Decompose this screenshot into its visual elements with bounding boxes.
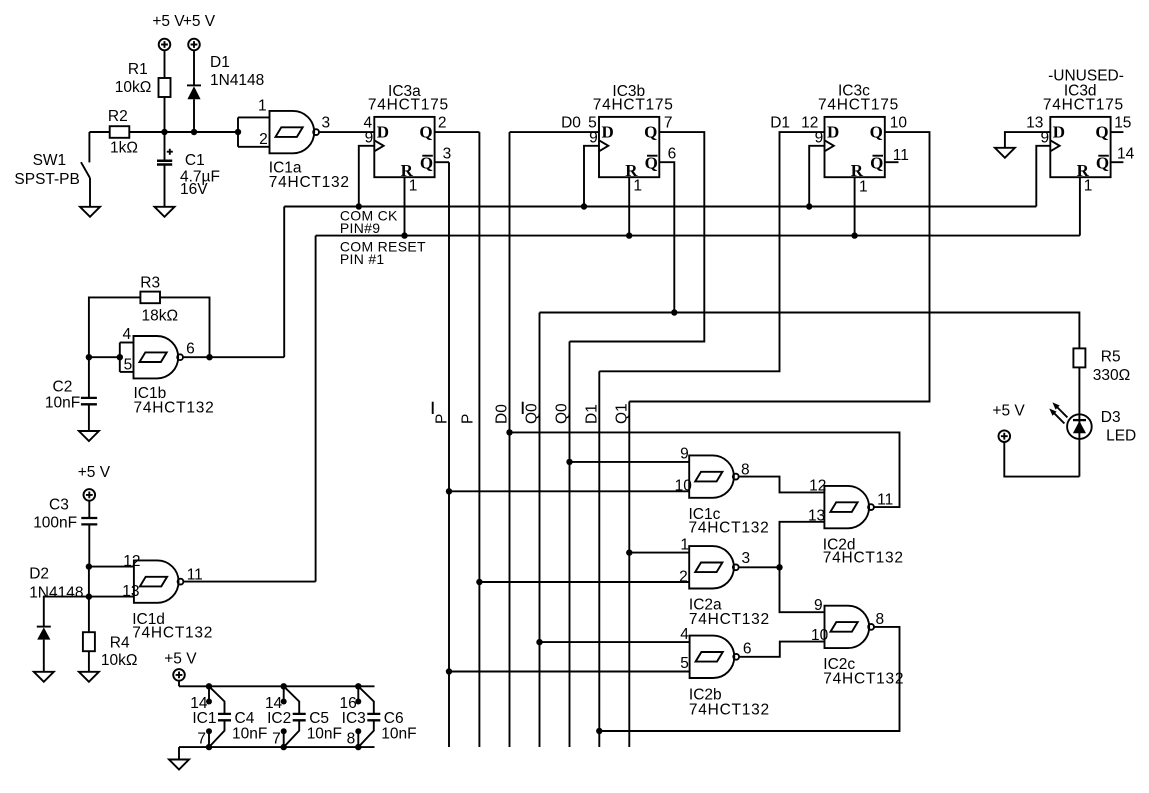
resistor R2 bbox=[110, 126, 130, 138]
junction P bus to IC2a pin2 bbox=[476, 579, 482, 585]
wire C2 to ground bbox=[88, 404, 90, 431]
wire IC3d D to ground bbox=[1005, 132, 1050, 148]
net label Q0 bbox=[554, 403, 571, 424]
wire IC1a input bracket bbox=[237, 117, 239, 146]
wire IC3b R to COM RESET bbox=[628, 177, 630, 235]
junction D0 bus at IC2d output bbox=[506, 429, 512, 435]
NAND gate IC2d (Schmitt) bbox=[824, 486, 873, 528]
junction IC1b input tie bbox=[117, 354, 123, 360]
wire IC1d output riser to COM RESET bbox=[315, 236, 317, 582]
power +5V symbol (decoupling) bbox=[173, 669, 185, 681]
junction D1 bus at IC2c output bbox=[596, 728, 602, 734]
svg-text:C5: C5 bbox=[309, 710, 329, 727]
wire top rail to C6 bbox=[358, 686, 374, 713]
junction top rail at C6 bbox=[355, 683, 361, 689]
pin 7 dot (IC1 GND) bbox=[206, 728, 212, 734]
resistor R3 bbox=[140, 292, 160, 304]
NAND gate IC1a (Schmitt) bbox=[270, 111, 320, 153]
wire P to IC2a pin2 bbox=[479, 581, 689, 583]
NAND gate IC1c (Schmitt) bbox=[689, 455, 738, 497]
svg-text:10kΩ: 10kΩ bbox=[101, 652, 138, 669]
wire R4 to ground bbox=[88, 651, 90, 672]
net label D0 bbox=[494, 404, 511, 424]
wire IC3a Q to P bus bbox=[435, 131, 480, 133]
svg-text:6: 6 bbox=[668, 146, 677, 163]
svg-text:P: P bbox=[459, 414, 476, 424]
net label Pbar bbox=[433, 402, 451, 424]
ground (C2) bbox=[79, 431, 99, 441]
capacitor C6 bbox=[367, 714, 380, 720]
NAND gate IC2b (Schmitt) bbox=[690, 636, 740, 678]
wire IC1b input bracket bbox=[119, 343, 121, 372]
wire D1 to node A bbox=[193, 99, 195, 132]
wire IC3c R to COM RESET bbox=[854, 177, 856, 235]
svg-text:Q1: Q1 bbox=[613, 403, 630, 424]
wire C4 to bottom rail bbox=[209, 721, 225, 748]
ground (IC3d D input) bbox=[995, 148, 1015, 158]
wire IC3a Qbar to Pbar bus bbox=[435, 161, 449, 163]
svg-text:12: 12 bbox=[809, 477, 826, 494]
power +5V symbol (D1) bbox=[188, 39, 200, 51]
wire IC1b pin5 stub bbox=[120, 371, 134, 373]
svg-text:PIN#9: PIN#9 bbox=[340, 220, 380, 236]
svg-text:9: 9 bbox=[365, 129, 374, 146]
wire node to C2 bbox=[88, 357, 90, 398]
wire node A to C1 bbox=[164, 132, 166, 160]
junction COM RESET at IC3c bbox=[851, 232, 857, 238]
svg-text:10nF: 10nF bbox=[232, 726, 267, 743]
junction bottom rail at C4 bbox=[206, 744, 212, 750]
wire node to IC1b inputs bbox=[89, 356, 120, 358]
junction COM CK at IC3c bbox=[806, 203, 812, 209]
wire D2 to ground bbox=[43, 640, 45, 672]
svg-text:74HCT132: 74HCT132 bbox=[134, 400, 215, 417]
pin 14 dot (IC1 Vcc) bbox=[206, 699, 212, 705]
wire IC2a out tee to IC2d pin13 bbox=[780, 522, 825, 612]
svg-text:P: P bbox=[434, 414, 451, 424]
wire bus D1 vertical bbox=[598, 371, 600, 747]
ground (SW1) bbox=[80, 207, 100, 217]
wire IC3b Q to Q0 bus bbox=[570, 132, 705, 341]
wire IC1b output riser to COM CK bbox=[283, 207, 285, 358]
svg-text:R4: R4 bbox=[110, 635, 130, 652]
svg-text:6: 6 bbox=[186, 341, 195, 358]
svg-text:8: 8 bbox=[347, 731, 356, 748]
svg-text:+5 V: +5 V bbox=[992, 403, 1025, 420]
wire node to D2 bbox=[44, 597, 89, 627]
svg-text:C1: C1 bbox=[185, 152, 205, 169]
svg-text:D: D bbox=[377, 123, 389, 142]
wire IC2b output to IC2c pin10 bbox=[739, 642, 824, 657]
svg-text:10nF: 10nF bbox=[307, 726, 342, 743]
svg-text:3: 3 bbox=[443, 146, 452, 163]
junction Q0 bus to IC1c pin9 bbox=[566, 459, 572, 465]
svg-text:6: 6 bbox=[743, 640, 752, 657]
svg-text:IC2: IC2 bbox=[267, 710, 291, 727]
wire +5V to D1 bbox=[193, 50, 195, 85]
wire top rail to C5 bbox=[284, 686, 300, 713]
wire bus Q1 vertical bbox=[628, 402, 630, 748]
wire R3 feedback right bbox=[160, 297, 210, 357]
svg-text:R2: R2 bbox=[108, 108, 128, 125]
svg-text:12: 12 bbox=[123, 553, 140, 570]
svg-text:2: 2 bbox=[259, 131, 268, 148]
wire +5V to R1 bbox=[164, 50, 166, 78]
wire IC3c Qbar stub bbox=[885, 161, 899, 163]
flip-flop IC3d bbox=[1050, 117, 1110, 180]
wire Pbar to IC1c pin10 bbox=[449, 490, 689, 492]
wire R5 to LED bbox=[1078, 367, 1080, 476]
junction node A at R1 bbox=[161, 129, 167, 135]
svg-text:R: R bbox=[851, 161, 864, 180]
svg-text:3: 3 bbox=[742, 550, 751, 567]
wire C6 to bottom rail bbox=[358, 721, 374, 748]
svg-text:SW1: SW1 bbox=[33, 152, 67, 169]
ground (D2) bbox=[34, 672, 54, 682]
svg-text:10nF: 10nF bbox=[381, 726, 416, 743]
svg-text:1: 1 bbox=[680, 536, 689, 553]
svg-text:D1: D1 bbox=[583, 404, 600, 424]
svg-text:PIN #1: PIN #1 bbox=[340, 251, 385, 267]
wire IC1a pin1 stub bbox=[238, 116, 270, 118]
wire bus P vertical bbox=[478, 132, 480, 747]
wire Q0 to IC1c pin9 bbox=[570, 461, 690, 463]
svg-text:14: 14 bbox=[1117, 146, 1135, 163]
svg-text:13: 13 bbox=[122, 583, 139, 600]
wire pin12 node down to pin13 node bbox=[88, 567, 90, 597]
svg-text:74HCT132: 74HCT132 bbox=[689, 520, 770, 537]
NAND gate IC1d (Schmitt) bbox=[134, 560, 184, 602]
junction IC1b input node bbox=[86, 354, 92, 360]
ground (R4) bbox=[79, 672, 99, 682]
svg-text:2: 2 bbox=[679, 569, 688, 586]
svg-text:D1: D1 bbox=[770, 115, 790, 132]
resistor R4 bbox=[83, 632, 95, 651]
svg-text:IC1: IC1 bbox=[192, 710, 216, 727]
net label P bbox=[459, 414, 476, 424]
wire node to IC1d pin12 bbox=[89, 566, 134, 568]
diode D1 bbox=[187, 85, 201, 99]
wire R2 to node A bbox=[129, 131, 238, 133]
svg-text:74HCT175: 74HCT175 bbox=[818, 96, 899, 113]
svg-text:Q: Q bbox=[419, 123, 432, 142]
svg-text:100nF: 100nF bbox=[33, 515, 77, 532]
wire IC3a clock to COM CK bbox=[359, 146, 375, 207]
svg-text:D0: D0 bbox=[494, 404, 511, 424]
svg-text:1N4148: 1N4148 bbox=[29, 584, 83, 601]
pin 14 dot (IC2 Vcc) bbox=[281, 699, 287, 705]
wire bottom rail to ground bbox=[178, 747, 180, 759]
junction IC1d pin12 node bbox=[86, 563, 92, 569]
capacitor C1 (electrolytic) bbox=[157, 161, 172, 165]
power +5V symbol (LED) bbox=[999, 430, 1011, 442]
wire C3 to IC1d pin12 node bbox=[88, 524, 90, 566]
svg-text:C6: C6 bbox=[384, 710, 404, 727]
wire C1 to ground bbox=[164, 165, 166, 207]
resistor R5 bbox=[1073, 348, 1085, 367]
NAND gate IC2a (Schmitt) bbox=[689, 546, 738, 588]
svg-text:+5 V: +5 V bbox=[164, 651, 197, 668]
pin 8 dot (IC3 GND) bbox=[355, 728, 361, 734]
junction IC1b output at R3 bbox=[206, 354, 212, 360]
junction top rail at C4 bbox=[206, 683, 212, 689]
svg-text:Q0: Q0 bbox=[554, 403, 571, 424]
svg-text:D2: D2 bbox=[29, 566, 49, 583]
svg-text:1: 1 bbox=[258, 98, 267, 115]
wire IC3c clock to COM CK bbox=[809, 146, 824, 207]
svg-text:11: 11 bbox=[877, 491, 893, 508]
svg-text:74HCT132: 74HCT132 bbox=[689, 701, 770, 718]
svg-text:+5 V: +5 V bbox=[152, 13, 185, 30]
wire IC1 Vcc pin stub bbox=[208, 686, 210, 701]
capacitor C5 bbox=[293, 714, 306, 720]
svg-text:7: 7 bbox=[664, 114, 673, 131]
wire bus Q0 vertical bbox=[569, 342, 571, 748]
wire IC1a output to IC3a D bbox=[319, 131, 374, 133]
wire IC2 GND pin stub bbox=[283, 731, 285, 747]
wire Pbar to IC2b pin5 bbox=[449, 671, 690, 673]
svg-text:74HCT132: 74HCT132 bbox=[269, 174, 350, 191]
svg-text:10: 10 bbox=[890, 114, 908, 131]
wire node to R4 bbox=[88, 597, 90, 633]
svg-text:18kΩ: 18kΩ bbox=[142, 308, 179, 325]
wire IC3 Vcc pin stub bbox=[357, 686, 359, 701]
wire SW1 to R2 bbox=[89, 131, 109, 133]
svg-text:2: 2 bbox=[438, 114, 447, 131]
wire R1 to node A bbox=[164, 97, 166, 132]
wire COM CK to IC3d clock bbox=[1036, 146, 1050, 207]
wire LED cathode return to +5V bbox=[1004, 442, 1079, 477]
wire IC2d output to D0 bus bbox=[510, 432, 900, 507]
flip-flop IC3c bbox=[825, 117, 885, 180]
svg-text:Q: Q bbox=[1095, 123, 1108, 142]
net label Q1 bbox=[613, 403, 630, 424]
wire IC3a R to COM RESET bbox=[404, 177, 406, 235]
NAND gate IC2c (Schmitt) bbox=[825, 606, 874, 648]
junction bottom rail at C6 bbox=[355, 744, 361, 750]
svg-text:10nF: 10nF bbox=[45, 395, 80, 412]
svg-text:R5: R5 bbox=[1101, 348, 1121, 365]
wire IC1b output bbox=[183, 356, 284, 358]
svg-text:1: 1 bbox=[1084, 178, 1093, 195]
pin 7 dot (IC2 GND) bbox=[281, 728, 287, 734]
junction COM RESET at IC3b bbox=[626, 232, 632, 238]
svg-text:7: 7 bbox=[272, 731, 281, 748]
svg-text:16V: 16V bbox=[180, 181, 208, 198]
svg-text:C2: C2 bbox=[53, 379, 73, 396]
svg-text:3: 3 bbox=[322, 115, 331, 132]
svg-text:Q0: Q0 bbox=[524, 403, 541, 424]
svg-text:C4: C4 bbox=[235, 710, 255, 727]
svg-text:Q: Q bbox=[870, 123, 883, 142]
junction Qbar0 bus to IC2b pin4 bbox=[536, 639, 542, 645]
plus mark (C1 polarity) bbox=[167, 149, 173, 155]
svg-text:74HCT175: 74HCT175 bbox=[593, 96, 674, 113]
wire +5V to C3 bbox=[88, 501, 90, 518]
svg-text:D3: D3 bbox=[1101, 409, 1121, 426]
svg-text:74HCT132: 74HCT132 bbox=[689, 611, 770, 628]
switch SW1 lower lead bbox=[89, 178, 91, 207]
diode D2 bbox=[37, 627, 51, 640]
wire bus D0 vertical bbox=[509, 132, 511, 747]
wire IC3d Qbar stub bbox=[1111, 161, 1124, 163]
svg-text:74HCT175: 74HCT175 bbox=[1043, 96, 1124, 113]
svg-text:15: 15 bbox=[1114, 114, 1131, 131]
resistor R1 bbox=[159, 78, 171, 97]
junction Pbar bus to IC2b pin5 bbox=[446, 668, 452, 674]
svg-text:LED: LED bbox=[1106, 428, 1136, 445]
svg-text:D0: D0 bbox=[561, 114, 581, 131]
svg-text:10: 10 bbox=[811, 627, 829, 644]
ground (decoupling) bbox=[169, 760, 189, 770]
svg-text:1kΩ: 1kΩ bbox=[110, 140, 138, 157]
LED D3 bbox=[1067, 414, 1092, 439]
wire IC2a output bbox=[739, 566, 780, 568]
flip-flop IC3a bbox=[374, 117, 434, 180]
svg-text:D1: D1 bbox=[210, 54, 230, 71]
svg-text:9: 9 bbox=[680, 446, 689, 463]
svg-text:1: 1 bbox=[409, 178, 418, 195]
wire R3 feedback left bbox=[89, 297, 140, 357]
wire net COM RESET rail bbox=[316, 235, 1080, 237]
svg-text:74HCT132: 74HCT132 bbox=[823, 550, 904, 567]
wire net COM CK rail bbox=[284, 206, 1036, 208]
wire Q1 to IC2a pin1 bbox=[629, 552, 689, 554]
wire net Qbar0 rail to R5 bbox=[540, 313, 1080, 349]
capacitor C2 bbox=[81, 398, 97, 404]
svg-text:D: D bbox=[1053, 123, 1065, 142]
junction Qbar0 at LED rail bbox=[671, 309, 677, 315]
wire decoupling top rail bbox=[179, 685, 375, 687]
svg-text:R3: R3 bbox=[140, 275, 160, 292]
wire bus Qbar0 vertical bbox=[539, 313, 541, 748]
net label Qbar0 bbox=[523, 402, 541, 424]
svg-text:5: 5 bbox=[124, 357, 133, 374]
svg-text:Q: Q bbox=[644, 123, 657, 142]
wire node to IC1d pin13 bbox=[89, 596, 134, 598]
NAND gate IC1b (Schmitt) bbox=[134, 336, 184, 378]
wire IC3 GND pin stub bbox=[357, 731, 359, 747]
wire IC1 GND pin stub bbox=[208, 731, 210, 747]
switch SW1 upper lead bbox=[88, 132, 90, 162]
wire +5V to top rail bbox=[178, 681, 180, 687]
svg-text:8: 8 bbox=[876, 611, 885, 628]
wire IC3b clock to COM CK bbox=[584, 146, 599, 207]
net label D1 bbox=[583, 404, 600, 424]
wire IC2c output to D1 bus bbox=[599, 627, 899, 731]
wire IC1a pin2 stub bbox=[238, 146, 270, 148]
capacitor C4 bbox=[218, 714, 231, 720]
svg-text:1: 1 bbox=[859, 178, 868, 195]
junction COM CK at IC3a bbox=[356, 203, 362, 209]
junction COM CK at IC3b bbox=[581, 203, 587, 209]
wire IC1c output to IC2d pin12 bbox=[739, 477, 825, 493]
svg-text:R1: R1 bbox=[128, 61, 148, 78]
svg-text:D: D bbox=[827, 123, 839, 142]
flip-flop IC3b bbox=[599, 117, 659, 180]
svg-text:1: 1 bbox=[633, 178, 642, 195]
junction Q1 bus to IC2a pin1 bbox=[626, 549, 632, 555]
wire Qbar0 to IC2b pin4 bbox=[540, 641, 690, 643]
junction Pbar bus to IC1c pin10 bbox=[446, 488, 452, 494]
svg-text:9: 9 bbox=[814, 597, 823, 614]
svg-text:IC3: IC3 bbox=[342, 710, 366, 727]
wire IC3d Q stub bbox=[1111, 131, 1124, 133]
svg-text:5: 5 bbox=[680, 655, 689, 672]
wire D1 riser to IC3c D bbox=[599, 132, 824, 371]
svg-text:1N4148: 1N4148 bbox=[210, 72, 264, 89]
svg-text:4: 4 bbox=[680, 626, 689, 643]
wire bus Pbar vertical bbox=[448, 162, 450, 747]
svg-text:74HCT132: 74HCT132 bbox=[132, 624, 213, 641]
wire IC3b Qbar riser bbox=[659, 162, 674, 312]
power +5V symbol (R1) bbox=[159, 39, 171, 51]
svg-text:7: 7 bbox=[197, 731, 206, 748]
junction node A at D1 bbox=[191, 129, 197, 135]
svg-text:+5 V: +5 V bbox=[78, 464, 111, 481]
wire top rail to C4 bbox=[209, 686, 225, 713]
wire decoupling bottom rail bbox=[179, 746, 375, 748]
svg-text:+5 V: +5 V bbox=[183, 13, 216, 30]
junction IC1d pin13 node bbox=[86, 593, 92, 599]
switch SW1 lever bbox=[81, 162, 90, 178]
power +5V symbol (C3) bbox=[84, 489, 96, 501]
wire D0 bus to IC3b D bbox=[510, 131, 600, 133]
wire IC3c Q to Q1 bus bbox=[629, 132, 929, 401]
svg-text:C3: C3 bbox=[49, 497, 69, 514]
svg-text:10kΩ: 10kΩ bbox=[115, 79, 152, 96]
capacitor C3 bbox=[81, 518, 97, 524]
wire C5 to bottom rail bbox=[284, 721, 300, 748]
svg-text:74HCT175: 74HCT175 bbox=[368, 96, 449, 113]
svg-text:74HCT132: 74HCT132 bbox=[823, 670, 904, 687]
wire COM RESET to IC3d R bbox=[1079, 177, 1081, 235]
wire IC2 Vcc pin stub bbox=[283, 686, 285, 701]
svg-text:10: 10 bbox=[675, 478, 693, 495]
junction bottom rail at C5 bbox=[281, 744, 287, 750]
junction top rail at C5 bbox=[281, 683, 287, 689]
junction COM RESET at IC3a bbox=[401, 232, 407, 238]
ground (C1) bbox=[155, 207, 175, 217]
svg-text:D: D bbox=[602, 123, 614, 142]
wire IC1b pin4 stub bbox=[120, 342, 134, 344]
svg-text:330Ω: 330Ω bbox=[1093, 367, 1130, 384]
LED D3 light arrows bbox=[1049, 402, 1067, 423]
svg-text:4: 4 bbox=[122, 326, 131, 343]
svg-text:SPST-PB: SPST-PB bbox=[14, 171, 79, 188]
wire IC1d output bbox=[183, 581, 315, 583]
junction IC2a output tee bbox=[776, 564, 782, 570]
junction IC1a input tie bbox=[235, 129, 241, 135]
pin 16 dot (IC3 Vcc) bbox=[355, 699, 361, 705]
